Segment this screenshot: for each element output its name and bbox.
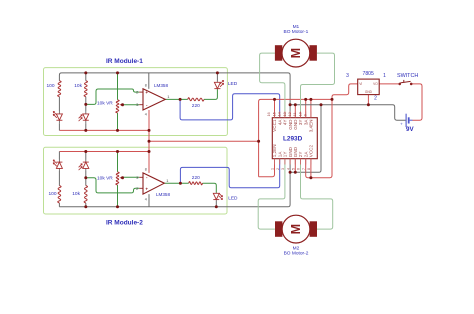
svg-text:10: 10 [298,112,302,116]
motor M1 body [282,39,310,67]
wire: 7805 pin 2 to gray bus [367,95,369,105]
wire: VR2 wiper to U2 pin 3 [123,176,140,178]
svg-text:10k VR: 10k VR [97,100,113,106]
wire: L293D pin 8 stub [310,159,312,178]
svg-text:BO Motor-1: BO Motor-1 [284,29,309,35]
svg-text:IR Module-1: IR Module-1 [106,58,143,65]
wire: VR2 bottom lead [117,185,119,207]
photodiode D4 (module 2) [85,160,87,163]
svg-text:6: 6 [297,168,301,170]
LED1 (module 1) [216,81,218,84]
wire: LED2 cathode to gray rail [215,200,217,206]
svg-text:8: 8 [145,168,147,172]
wire: LED1 anode to VCC rail [216,73,218,82]
resistor 10k (module 2) [84,186,87,204]
wire: U1 pin 4 down through mid GND node to U2 pin 8 [148,110,150,173]
regulator U4 7805 body [358,79,380,95]
wire: L293D pins 7,8 to red bus [306,99,332,177]
svg-text:1: 1 [271,168,275,170]
wire: VR1 top lead [117,73,119,100]
wire: L293D pin 4 stub [289,159,291,173]
svg-text:VO: VO [373,82,378,86]
svg-text:1: 1 [383,73,386,79]
wire: 220 resistor to LED2 [203,183,217,192]
wire: R1 bottom lead to D1 [58,97,60,111]
wire: R2 top lead [85,73,87,81]
svg-text:4: 4 [286,168,290,170]
svg-text:SWITCH: SWITCH [397,73,418,79]
wire: VR1 wiper to U1 pin 3 [123,104,140,106]
svg-text:4: 4 [145,198,147,202]
svg-text:+: + [145,187,148,192]
svg-text:3: 3 [346,73,349,79]
svg-text:GND: GND [365,90,373,94]
wire: L293D pin 5 stub [294,159,296,173]
svg-text:100: 100 [48,191,56,197]
svg-text:220: 220 [192,103,200,109]
IC U3 L293D body [272,118,317,159]
svg-text:7805: 7805 [363,71,374,77]
wire: L293D pin 16 VCC1 [274,99,276,117]
wire: L293D pin 9 [310,99,312,117]
IR Module-1 bounding box [44,68,228,136]
svg-text:IR Module-2: IR Module-2 [106,220,143,227]
wire: M1 left brush to L293D pin 14 (4Y) [260,53,285,118]
svg-text:L293D: L293D [283,136,303,143]
resistor 100 (module 1) [58,81,61,97]
L293D bottom pin stubs 1..8 [274,159,276,165]
wire: 220 resistor to LED1 [204,89,217,99]
svg-text:11: 11 [293,113,297,117]
svg-text:15: 15 [272,112,276,116]
svg-text:13: 13 [283,112,287,116]
resistor 100 (module 2) [58,186,61,204]
wire: U1 pin 8 to VCC rail [148,73,150,89]
svg-text:4: 4 [145,113,147,117]
wire: mid GND horizontal red [149,140,259,142]
wire: sensor node to op-amp U1 pin 2 [86,89,139,104]
op-amp U1 LM358 (module 1) [143,89,165,110]
wire: module-1 VCC gray rail to L293D pin 13 [59,73,290,118]
op-amp U2 LM358 (module 2) [143,173,164,194]
wire: switch to battery plus [412,84,422,120]
svg-text:+: + [400,122,403,127]
wire: D1 cathode to rail [58,123,60,130]
wire: R4 bottom lead [85,203,87,207]
switch SW1 [398,83,401,86]
wire: R2 bottom to node and D2 [85,97,87,111]
wire: 7805 pin 3 to red bus [332,84,358,100]
wire: M2 left brush to L293D pin 3 (1Y) [258,159,285,229]
wire: U1 output to 220 resistor [165,98,187,100]
wire: U1 output blue to L293D pin 15 (4A) [180,94,280,120]
svg-text:10k VR: 10k VR [97,176,113,182]
wire: red to L293D pin 1 [259,159,275,177]
wire: U2 pin 4 to gray rail [148,194,150,207]
svg-text:M: M [289,224,303,234]
svg-text:LED: LED [228,195,238,201]
wire: M1 right brush to L293D pin 11 (3Y) [301,53,335,118]
wire: gray bus right leg to L293D GND pins 4,5 [290,105,321,173]
svg-text:LED: LED [228,81,238,87]
wire: U2 output blue to L293D pin 2 (1A) [180,159,279,188]
potentiometer 10k VR (module 1) [116,100,119,113]
photodiode D2 (module 1) [85,111,87,114]
wire: D3 top lead [58,152,60,160]
svg-text:LM358: LM358 [154,83,168,88]
svg-text:VI: VI [359,82,362,86]
IR LED D1 (module 1) [58,111,60,114]
resistor 10k (module 1) [84,81,87,97]
wire: U2 output to 220 resistor [164,182,188,184]
svg-text:8: 8 [145,84,147,88]
wire: R3 bottom lead [58,203,60,207]
resistor 220 (module 1) [188,98,204,101]
resistor 220 (module 2) [189,181,203,184]
L293D top pin stubs 16..9 [274,112,276,118]
svg-text:220: 220 [192,175,200,181]
junction dots [84,71,87,74]
svg-text:16: 16 [267,112,271,116]
IR Module-2 bounding box [44,147,228,214]
wire: VR2 top lead [117,152,119,172]
wire: D2 cathode to rail [85,123,87,130]
IR LED D3 (module 2) [58,160,60,163]
wire: red power bus vertical + horizontal over L293D [259,99,332,176]
svg-text:3,4EN: 3,4EN [309,120,314,133]
svg-text:12: 12 [288,112,292,116]
svg-text:9: 9 [304,114,308,116]
svg-text:VCC2: VCC2 [309,145,314,158]
wire: 7805 pin 1 to switch [379,83,398,85]
battery BAT1 9V [405,114,407,127]
svg-text:9V: 9V [406,126,414,133]
wire: module-2 gray bottom rail to L293D GND [59,172,290,207]
svg-text:+: + [145,90,148,95]
wire: module-2 red top rail [59,151,149,153]
wire: D4 top lead [85,152,87,160]
wire: gray 5V bus from rail to battery minus [290,105,406,121]
wire: module-1 GND red bottom rail [59,129,149,131]
potentiometer 10k VR (module 2) [116,172,119,185]
svg-text:8: 8 [307,168,311,170]
svg-text:BO Motor-2: BO Motor-2 [284,250,309,256]
LED2 (module 2) [215,192,217,195]
svg-text:5: 5 [292,168,296,170]
svg-text:M: M [289,48,303,58]
wire: L293D pin 10 [305,99,307,117]
svg-text:14: 14 [278,112,282,116]
wire: D3 to R3 [58,171,60,186]
svg-text:3: 3 [281,168,285,170]
motor M2 body [282,215,310,243]
svg-text:10k: 10k [74,83,82,89]
svg-text:10k: 10k [72,191,80,197]
svg-text:2: 2 [276,168,280,170]
svg-text:100: 100 [46,83,54,89]
wire: sensor node to op-amp U2 pin 2 [86,178,139,193]
wire: L293D pin 12 [294,105,296,118]
wire: M2 right brush to L293D pin 6 (2Y) [301,159,333,229]
svg-text:2: 2 [374,95,377,101]
svg-text:LM358: LM358 [156,192,170,197]
wire: D4 to node and R4 [85,171,87,186]
svg-text:7: 7 [302,168,306,170]
wire: VR1 bottom lead [117,113,119,130]
